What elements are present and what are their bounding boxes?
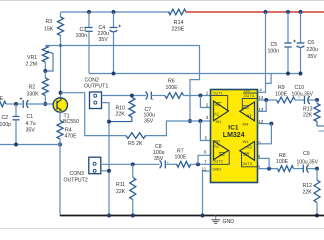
node pin8 feedback bbox=[267, 167, 271, 171]
capacitor C6 bbox=[293, 12, 318, 74]
wire R7 to pin7 bbox=[190, 163, 210, 165]
svg-text:220u: 220u bbox=[307, 47, 319, 53]
svg-text:R2: R2 bbox=[29, 85, 36, 91]
wire R13 exit stub bbox=[319, 130, 324, 132]
svg-text:IN1: IN1 bbox=[215, 103, 221, 107]
node input bus junction bbox=[188, 119, 192, 123]
wire C10 to R13 node bbox=[309, 99, 318, 101]
node R12 bottom bbox=[315, 214, 319, 218]
resistor mic (clipped at edge) bbox=[0, 101, 6, 107]
node ground R11 bbox=[131, 214, 135, 218]
op-amp A1 triangle bbox=[211, 91, 229, 124]
resistor R14 bbox=[169, 9, 187, 32]
node R12 top bbox=[315, 167, 319, 171]
pin 11 label bbox=[202, 166, 207, 171]
svg-text:5: 5 bbox=[205, 135, 208, 140]
pin 14 label bbox=[258, 95, 264, 100]
pin 13 label bbox=[258, 107, 264, 112]
svg-text:35V: 35V bbox=[99, 37, 109, 43]
wire C8 to R7 bbox=[165, 163, 177, 165]
op-amp A2 triangle bbox=[211, 139, 230, 171]
svg-text:35V: 35V bbox=[154, 156, 164, 162]
pin 4 label bbox=[259, 88, 262, 93]
svg-text:R3: R3 bbox=[46, 19, 53, 25]
node R2 base junction bbox=[43, 102, 47, 106]
label E (clipped text at left edge) bbox=[0, 96, 4, 102]
svg-text:35V: 35V bbox=[308, 54, 318, 60]
preset VR1 bbox=[26, 46, 54, 72]
connector CON2 bbox=[84, 78, 108, 109]
svg-text:R6: R6 bbox=[168, 79, 175, 85]
node rail-C5 bbox=[286, 10, 290, 14]
svg-text:R9: R9 bbox=[278, 85, 285, 91]
svg-text:OUTPUT1: OUTPUT1 bbox=[84, 84, 108, 90]
svg-text:OUT3: OUT3 bbox=[242, 161, 252, 166]
wire R6 to pin1 bbox=[184, 95, 211, 97]
node rail-C6 bbox=[299, 10, 303, 14]
node R4 bottom ground bbox=[58, 143, 62, 147]
svg-text:100u,35V: 100u,35V bbox=[292, 92, 314, 98]
svg-text:R5 2K: R5 2K bbox=[128, 141, 143, 147]
svg-text:100E: 100E bbox=[276, 159, 289, 165]
svg-text:220E: 220E bbox=[172, 27, 185, 33]
resistor R12 bbox=[303, 169, 321, 216]
pin 8 label bbox=[258, 164, 261, 169]
resistor R6 bbox=[165, 79, 184, 99]
svg-text:A4: A4 bbox=[247, 113, 253, 118]
wire branch to pin5 bbox=[200, 121, 210, 141]
resistor R5 bbox=[85, 121, 190, 147]
pin 6 label bbox=[204, 149, 207, 154]
node VR1 bottom-wiper bbox=[43, 69, 47, 73]
svg-text:35V: 35V bbox=[26, 128, 36, 134]
capacitor C2 bbox=[0, 104, 19, 145]
svg-text:1: 1 bbox=[206, 91, 209, 96]
resistor R13 bbox=[303, 100, 324, 126]
wire CON2 pin2 to ground bus bbox=[102, 103, 110, 216]
resistor R8 bbox=[276, 153, 294, 172]
svg-text:6: 6 bbox=[204, 149, 207, 154]
svg-text:VR1: VR1 bbox=[27, 55, 37, 61]
svg-text:IN4: IN4 bbox=[243, 122, 249, 126]
capacitor C8 bbox=[153, 144, 169, 168]
wire CON3 pin1 to C8 node bbox=[101, 163, 160, 165]
pin 9 label bbox=[258, 154, 261, 159]
svg-text:470E: 470E bbox=[65, 133, 78, 139]
svg-text:C1: C1 bbox=[27, 114, 34, 120]
pin 7 label bbox=[204, 159, 207, 164]
svg-text:35V: 35V bbox=[144, 118, 154, 124]
svg-text:330K: 330K bbox=[27, 92, 40, 98]
resistor R9 bbox=[275, 85, 295, 103]
node rail-Vcc drop bbox=[264, 10, 268, 14]
svg-text:IN2: IN2 bbox=[219, 153, 225, 157]
wire collector to R5 staircase bbox=[61, 93, 85, 136]
transistor T1 bbox=[53, 98, 79, 125]
svg-text:IN4: IN4 bbox=[243, 106, 249, 110]
svg-text:100E: 100E bbox=[166, 85, 179, 91]
pin 12 label bbox=[258, 119, 264, 124]
svg-text:+: + bbox=[152, 98, 154, 102]
svg-text:22K: 22K bbox=[116, 112, 126, 118]
wire feedback to pin9 bbox=[258, 158, 270, 168]
svg-text:2.2M: 2.2M bbox=[26, 62, 38, 68]
ground symbol GND bbox=[211, 216, 234, 226]
node R11 top bbox=[131, 162, 135, 166]
svg-text:100E: 100E bbox=[275, 92, 288, 98]
svg-text:R14: R14 bbox=[174, 20, 184, 26]
svg-text:A1: A1 bbox=[214, 112, 220, 117]
node C2 ground bbox=[14, 143, 18, 147]
wire C9 to R12 node bbox=[307, 168, 317, 170]
svg-text:CON2: CON2 bbox=[85, 78, 100, 84]
svg-text:15K: 15K bbox=[44, 27, 54, 33]
svg-text:IN3: IN3 bbox=[243, 153, 249, 157]
svg-text:GND: GND bbox=[223, 219, 235, 225]
svg-text:BC550: BC550 bbox=[63, 119, 79, 125]
wire pin12 input stub bbox=[258, 123, 272, 125]
svg-text:OUT2: OUT2 bbox=[213, 159, 223, 164]
svg-text:22K: 22K bbox=[303, 190, 313, 196]
svg-text:IC1: IC1 bbox=[228, 125, 239, 132]
svg-text:100n: 100n bbox=[268, 49, 280, 55]
svg-text:OUT4: OUT4 bbox=[244, 93, 255, 98]
resistor R10 bbox=[109, 98, 135, 122]
node ground pin11 bbox=[201, 214, 205, 218]
svg-text:IN1: IN1 bbox=[216, 120, 222, 124]
wire input bus to pin3 bbox=[190, 120, 211, 122]
pin 1 label bbox=[206, 91, 209, 96]
node pin12 bus bbox=[269, 122, 273, 126]
svg-text:7: 7 bbox=[204, 159, 207, 164]
svg-text:C9: C9 bbox=[303, 151, 310, 157]
wire R3 bottom to T1 collector bbox=[60, 36, 62, 99]
svg-text:R12: R12 bbox=[303, 183, 313, 189]
capacitor C3 bbox=[76, 12, 93, 74]
wire CON2 pin1 to C7 bbox=[102, 95, 147, 97]
connector CON3 bbox=[64, 157, 101, 184]
wire left ground rail bbox=[0, 139, 60, 145]
svg-text:R11: R11 bbox=[116, 182, 125, 188]
node rail-C4 bbox=[112, 10, 116, 14]
svg-text:4.7u: 4.7u bbox=[26, 121, 36, 127]
page border bottom bbox=[0, 228, 324, 230]
wire bus pin12 to pin10 bbox=[258, 124, 272, 144]
wire base to T1 bbox=[45, 103, 53, 105]
op-amp IC1 LM324 body bbox=[211, 90, 258, 183]
wire CON3 pin2 to ground bus bbox=[101, 170, 109, 172]
svg-text:GND: GND bbox=[213, 166, 222, 171]
svg-text:100p: 100p bbox=[0, 122, 11, 128]
svg-text:OUTPUT2: OUTPUT2 bbox=[64, 178, 88, 184]
svg-text:3: 3 bbox=[206, 115, 209, 120]
wire feedback to pin2 bbox=[200, 96, 210, 108]
wire ground rail black bbox=[60, 215, 324, 217]
node pin5 branch bbox=[198, 119, 202, 123]
capacitor C9 bbox=[297, 151, 319, 173]
node VR1 top junction bbox=[59, 44, 62, 47]
wire feedback to pin13 bbox=[258, 100, 267, 111]
wire ground drop to rail bbox=[59, 145, 61, 216]
node R10 top bbox=[130, 94, 134, 98]
svg-text:CON3: CON3 bbox=[70, 171, 85, 177]
svg-text:C10: C10 bbox=[295, 85, 305, 91]
wire cap-bottom rail bbox=[89, 73, 301, 75]
capacitor C5 bbox=[268, 12, 292, 74]
pin 2 label bbox=[206, 102, 209, 107]
wire R8 to C9 bbox=[294, 168, 304, 170]
pin 10 label bbox=[256, 140, 262, 145]
svg-text:C5: C5 bbox=[271, 42, 278, 48]
node C5 bottom bbox=[286, 72, 290, 76]
wire C7 to R6 bbox=[151, 95, 165, 97]
svg-text:2: 2 bbox=[206, 102, 209, 107]
resistor R3 bbox=[44, 12, 64, 36]
wire pin8 to R8 bbox=[258, 168, 278, 170]
resistor R7 bbox=[175, 149, 191, 168]
svg-text:22K: 22K bbox=[303, 113, 313, 119]
svg-text:100u,35V: 100u,35V bbox=[297, 160, 319, 166]
wire VR1-top signal feed to inputs bbox=[45, 46, 199, 122]
node pin1 feedback bbox=[198, 94, 202, 98]
svg-text:LM324: LM324 bbox=[223, 132, 245, 139]
svg-text:100E: 100E bbox=[175, 155, 188, 161]
wire pin14 to R9 bbox=[258, 99, 277, 101]
wire +V rail red after R14 bbox=[186, 11, 324, 13]
node CON3 ground bbox=[107, 169, 111, 173]
capacitor C4 bbox=[98, 12, 122, 74]
op-amp A4 triangle bbox=[240, 88, 258, 126]
svg-text:IN3: IN3 bbox=[243, 140, 249, 144]
node C6 bottom bbox=[299, 72, 303, 76]
pin 3 label bbox=[206, 115, 209, 120]
wire feedback to pin6 bbox=[198, 155, 211, 164]
node C4 bottom bbox=[112, 72, 116, 76]
node rail-C3 bbox=[87, 10, 91, 14]
wire +V top rail blue bbox=[61, 11, 171, 13]
wire mic to C2 node bbox=[6, 103, 22, 105]
op-amp A3 triangle bbox=[240, 140, 258, 167]
node pin14 feedback bbox=[264, 98, 268, 102]
wire Vcc drop to pin4 bbox=[258, 12, 266, 92]
svg-text:A3: A3 bbox=[247, 144, 253, 149]
wire R9 to C10 bbox=[295, 99, 305, 101]
wire pin11 to ground rail bbox=[203, 171, 211, 216]
resistor R11 bbox=[116, 164, 136, 215]
wire cap rail jog to Vcc bbox=[266, 74, 272, 84]
svg-text:22K: 22K bbox=[116, 189, 126, 195]
svg-text:C2: C2 bbox=[2, 115, 9, 121]
node pin7 feedback bbox=[196, 162, 200, 166]
node R10 bottom on ground bus bbox=[107, 120, 111, 124]
node C2 top bbox=[14, 102, 18, 106]
node R13 top bbox=[315, 98, 319, 102]
page border top bbox=[0, 0, 324, 2]
capacitor C1 bbox=[20, 97, 46, 133]
node ground CON bus bbox=[107, 214, 111, 218]
resistor R4 bbox=[57, 112, 77, 140]
svg-text:E: E bbox=[0, 96, 4, 102]
svg-text:100n: 100n bbox=[76, 33, 88, 39]
node T1 collector takeoff bbox=[59, 91, 63, 95]
capacitor C7 bbox=[144, 92, 156, 125]
capacitor C10 bbox=[292, 85, 314, 104]
svg-text:A2: A2 bbox=[214, 144, 220, 149]
resistor R2 bbox=[27, 71, 49, 104]
svg-text:C6: C6 bbox=[308, 40, 315, 46]
svg-text:10: 10 bbox=[256, 140, 262, 145]
pin 5 label bbox=[205, 135, 208, 140]
svg-text:OUT1: OUT1 bbox=[213, 91, 223, 96]
